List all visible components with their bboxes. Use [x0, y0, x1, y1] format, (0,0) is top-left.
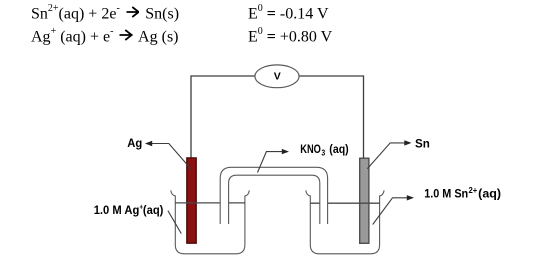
electrode Ag (dark red): [187, 158, 196, 243]
arrow to Ag label: [146, 144, 191, 170]
wire left: voltmeter to Ag electrode: [191, 76, 255, 158]
svg-text:2+: 2+: [469, 186, 478, 195]
svg-text:(aq): (aq): [478, 188, 501, 201]
svg-text:(aq): (aq): [329, 143, 348, 156]
water line right beaker: [310, 202, 379, 204]
voltmeter V: [255, 65, 299, 88]
svg-text:Sn: Sn: [415, 137, 430, 150]
E0 value line 2: [248, 28, 332, 45]
beaker left: [171, 190, 250, 254]
wire right: voltmeter to Sn electrode: [299, 76, 364, 158]
svg-text:3: 3: [321, 149, 325, 158]
beaker right: [306, 190, 384, 254]
svg-text:KNO: KNO: [300, 143, 321, 156]
svg-text:V: V: [274, 70, 281, 82]
salt bridge inner wall: [229, 175, 320, 224]
E0 value line 1: [248, 5, 329, 22]
salt bridge tube fill (white annulus hides water line under glass walls): [220, 167, 327, 224]
svg-text:1.0 M Ag: 1.0 M Ag: [94, 204, 140, 217]
svg-text:Ag: Ag: [127, 137, 142, 150]
water line left beaker: [175, 202, 245, 204]
equation line 1: Sn2+(aq) + 2e- -> Sn(s): [31, 5, 179, 22]
svg-text:1.0 M Sn: 1.0 M Sn: [424, 188, 468, 201]
equation line 2: Ag+(aq) + e- -> Ag (s): [31, 28, 179, 45]
arrow to KNO3 label: [258, 152, 288, 173]
arrow to Sn label: [367, 143, 410, 169]
svg-text:(aq): (aq): [143, 204, 164, 217]
arrow to Sn2+ label: [373, 198, 413, 225]
pointer line from Ag+ label: [168, 211, 181, 234]
electrode Sn (grey): [360, 158, 369, 243]
salt bridge outer wall: [220, 167, 327, 224]
